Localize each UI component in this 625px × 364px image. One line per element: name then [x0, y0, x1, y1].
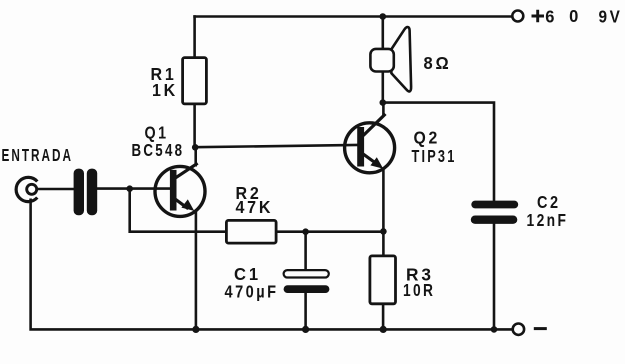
- svg-text:8Ω: 8Ω: [424, 53, 452, 73]
- svg-text:ENTRADA: ENTRADA: [2, 145, 74, 165]
- svg-text:470µF: 470µF: [225, 282, 279, 302]
- svg-text:6: 6: [545, 7, 557, 27]
- svg-text:Q2: Q2: [414, 128, 441, 148]
- svg-text:47K: 47K: [236, 197, 274, 217]
- svg-text:0: 0: [569, 6, 581, 26]
- svg-text:10R: 10R: [403, 280, 435, 300]
- svg-text:9V: 9V: [599, 7, 623, 27]
- svg-text:12nF: 12nF: [527, 210, 569, 230]
- svg-text:1K: 1K: [152, 80, 178, 100]
- svg-text:TIP31: TIP31: [412, 146, 457, 166]
- svg-text:BC548: BC548: [132, 140, 185, 160]
